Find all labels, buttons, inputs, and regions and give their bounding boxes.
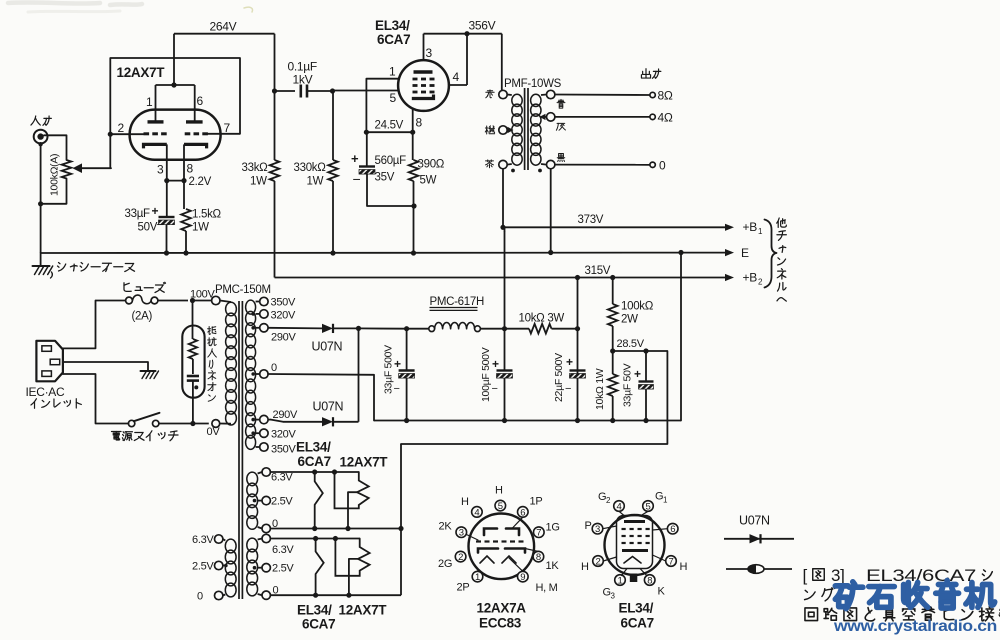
wire 356V rail [424, 33, 502, 35]
svg-text:6CA7: 6CA7 [621, 616, 654, 631]
wire B2 vertical [577, 278, 579, 421]
T2 primary winding [512, 94, 522, 106]
12AX7A pin 1 circle [472, 571, 483, 582]
junction dot E/heater-bias return [678, 250, 683, 255]
wire to cathode bypass cap C3 [366, 132, 368, 166]
junction dot B2 line [575, 275, 580, 280]
svg-text:2.5V: 2.5V [272, 563, 294, 575]
V1 pin2 grid wire from wiper node [110, 133, 143, 135]
svg-text:H: H [461, 496, 469, 508]
scan smudge top-left (decorative) [8, 2, 142, 5]
EL34 pin 5 circle [643, 501, 654, 512]
12AX7 heater element (upper) [335, 472, 369, 508]
V2 pin3 plate lead [423, 34, 425, 60]
svg-text:35V: 35V [375, 172, 395, 184]
svg-text:EL34/: EL34/ [375, 18, 410, 33]
svg-text:8: 8 [647, 575, 652, 586]
svg-text:+: + [394, 357, 401, 371]
svg-text:1kV: 1kV [293, 73, 313, 87]
heater common right-side vertical [400, 529, 402, 596]
resistor R4 390Ω 5W (cathode) [409, 160, 419, 181]
svg-text:−: − [157, 217, 164, 232]
label 出力 [641, 69, 650, 78]
svg-text:10kΩ 3W: 10kΩ 3W [519, 313, 565, 325]
resistor R7 10kΩ 1W (bias divider lower) [612, 351, 614, 374]
capacitor C4 33µF 500V (first filter) [406, 329, 408, 371]
svg-text:PMF-10WS: PMF-10WS [504, 78, 562, 90]
svg-text:P: P [585, 520, 592, 532]
svg-text:1P: 1P [530, 496, 543, 508]
fuse F1 (2A) [96, 300, 126, 302]
svg-text:1.5kΩ: 1.5kΩ [192, 209, 222, 221]
neon capsule bottom wire [192, 381, 194, 424]
svg-text:1: 1 [146, 95, 153, 109]
lower 6.3V heater line [270, 538, 359, 540]
junction dots cathode tie [164, 178, 169, 183]
T1 heater winding (lower 6.3V/2.5V/0) [247, 538, 258, 552]
svg-text:EL34/: EL34/ [297, 603, 332, 618]
T1 primary winding [220, 301, 231, 303]
capacitor C5 100µF 500V (second filter) [504, 329, 506, 371]
svg-text:12AX7A: 12AX7A [477, 601, 527, 616]
choke CH1 winding [429, 326, 435, 332]
junction dot 356V rail/pin4 [464, 31, 469, 36]
svg-text:2G: 2G [438, 558, 452, 570]
T2 brown lead terminal 茶 [499, 160, 507, 168]
svg-text:0: 0 [271, 362, 277, 374]
V1 cathode bar (triode b) [184, 144, 207, 148]
svg-text:3: 3 [426, 46, 433, 60]
watermark 矿石收音机 (blue) [835, 582, 862, 609]
wire wiper up to grid node [109, 134, 111, 168]
12AX7A pin 5 circle [495, 500, 506, 511]
svg-text:0: 0 [659, 159, 666, 173]
12AX7A internal connection lines [512, 517, 523, 528]
V1 cathode bar (triode a) [144, 144, 167, 148]
junction dot wiper/grid line [108, 132, 113, 137]
power transformer T1 primary terminal 100V [212, 296, 220, 304]
wire raw DC node down to D2 [358, 328, 360, 421]
resistor R6 100kΩ 2W (bias divider) [608, 304, 618, 326]
junction dot neon/0V line [190, 421, 195, 426]
junction dot R5/B2 vertical [575, 326, 580, 331]
grid tie loop wire (pins2-7 over top) [110, 58, 240, 134]
svg-text:H: H [680, 561, 688, 573]
svg-text:2P: 2P [457, 582, 470, 594]
svg-text:+: + [152, 204, 159, 218]
upper 6.3V heater line [270, 471, 358, 473]
junction dot 28.5V node [610, 348, 615, 353]
capacitor C2 33µF 50V (cathode bypass) [159, 216, 175, 218]
12AX7A pin 2 circle [455, 551, 466, 562]
chassis ground symbol (AC inlet) [141, 370, 156, 372]
svg-text:7: 7 [224, 121, 231, 135]
svg-text:12AX7T: 12AX7T [340, 455, 389, 470]
wire raw DC line to first filter cap [359, 327, 407, 329]
svg-text:2: 2 [458, 552, 463, 563]
svg-text:EL34/: EL34/ [296, 440, 331, 455]
wire D1 cathode to raw DC node [333, 327, 359, 329]
PSU common rail (line A) [374, 420, 681, 422]
wire 290V lower tap to rectifier D2 [268, 419, 271, 421]
svg-text:560µF: 560µF [375, 155, 407, 167]
T2 orange lead terminal 橙 (tap arrow) [499, 126, 507, 134]
junction dot C4 bottom [404, 418, 409, 423]
label シャシーアース [58, 263, 66, 272]
V2 plate bar [414, 70, 433, 74]
junction dot raw DC node [356, 326, 361, 331]
junction dots lower heater [313, 536, 318, 541]
svg-text:1: 1 [618, 575, 623, 586]
svg-text:356V: 356V [469, 19, 496, 33]
capacitor C3 560µF 35V (cathode bypass) [359, 165, 375, 167]
12AX7A pin 6 circle [518, 507, 529, 518]
svg-text:E: E [741, 246, 749, 260]
svg-text:100kΩ: 100kΩ [621, 301, 654, 313]
terminal 8Ω [650, 92, 655, 97]
junction dot E/OPT black [548, 250, 553, 255]
label 電源スイッチ [112, 432, 122, 441]
svg-text:330kΩ: 330kΩ [294, 162, 327, 174]
capacitor C6 22µF 500V (B2 filter) [570, 369, 586, 371]
svg-text:EL34/: EL34/ [619, 601, 654, 616]
junction dot 28.5V/C7 [643, 348, 648, 353]
resistor R1 33kΩ 1W body [270, 160, 280, 181]
wire IEC live to fuse line [63, 301, 96, 349]
svg-text:0.1µF: 0.1µF [288, 60, 317, 74]
junction dot 373V node [502, 326, 507, 331]
12AX7A pin 9 circle [518, 571, 529, 582]
svg-text:33kΩ: 33kΩ [242, 162, 269, 174]
junction dot C3/R4 [411, 203, 416, 208]
svg-text:www.crystalradio.cn: www.crystalradio.cn [833, 618, 997, 635]
legend neon lamp symbol [726, 568, 792, 570]
svg-text:8: 8 [536, 552, 541, 563]
svg-text:5: 5 [498, 501, 503, 512]
svg-text:H, M: H, M [536, 582, 558, 594]
svg-text:U07N: U07N [312, 340, 343, 354]
EL34 guide key [630, 574, 638, 583]
T1 HV taps terminals and labels [260, 297, 268, 305]
potentiometer VR1 100kΩ(A) body [62, 160, 72, 179]
chassis ground symbol (input) [40, 253, 42, 266]
label 他チャンネルヘ (vertical) [777, 218, 787, 227]
junction dot C2/ground bus [164, 250, 169, 255]
junction dot plate tie [171, 82, 176, 87]
wire cap to ground bus [166, 225, 168, 253]
tube pinout diagram EL34/6CA7 [605, 515, 665, 575]
V1 pin6 lead [194, 85, 196, 122]
T2 gray lead terminal 灰 (tap arrow) [547, 113, 555, 121]
svg-text:2: 2 [596, 556, 601, 567]
T1 primary terminal 0V [212, 420, 220, 428]
neon pilot lamp with resistor (抵抗入りネオン) capsule [182, 326, 204, 398]
tube V1 12AX7T envelope [130, 110, 221, 160]
EL34 pin 3 circle [592, 523, 603, 534]
svg-text:8Ω: 8Ω [658, 89, 673, 103]
svg-text:315V: 315V [585, 265, 611, 277]
EL34 internal structure box [617, 516, 653, 569]
brace to other channel [765, 220, 777, 288]
T1 HV secondary winding [246, 300, 256, 314]
svg-text:4: 4 [474, 507, 479, 518]
label ヒューズ (2A) [124, 283, 131, 292]
svg-text:6.3V: 6.3V [192, 534, 214, 546]
wire brown lead down to +B1 node [502, 169, 504, 228]
svg-text:50V: 50V [138, 222, 158, 234]
junction dot R2/ground bus [183, 250, 188, 255]
svg-text:2W: 2W [621, 314, 638, 326]
lower heater terminals [262, 534, 270, 542]
wire cathode to R4 [412, 132, 414, 160]
power switch S1 [128, 420, 134, 426]
wire R3 to ground bus [332, 181, 334, 253]
svg-text:9: 9 [520, 572, 525, 583]
wire 8Ω output [555, 94, 650, 97]
junction dots upper heater [312, 469, 317, 474]
wire R6 to 28.5V node [612, 326, 614, 351]
wire PSU common right end up to E bus [680, 253, 682, 421]
svg-text:264V: 264V [210, 20, 237, 34]
T2 phase dots [511, 169, 515, 173]
svg-text:2: 2 [118, 121, 125, 135]
T1 core [238, 301, 240, 599]
svg-text:[: [ [803, 566, 808, 585]
svg-text:4: 4 [453, 70, 460, 84]
svg-text:EL34/6CA7: EL34/6CA7 [866, 566, 976, 585]
wire cathode to R2 [183, 181, 185, 209]
svg-text:3: 3 [157, 163, 164, 177]
junction dot 100kΩ top on B2 [610, 275, 615, 280]
junction dot fuse line / neon [190, 298, 195, 303]
svg-text:2K: 2K [439, 521, 453, 533]
cathode 24.5V wire [366, 131, 412, 133]
svg-text:2.5V: 2.5V [192, 561, 214, 573]
T1 heater winding (upper 6.3V/2.5V/0) [247, 472, 258, 486]
svg-text:+: + [492, 357, 499, 371]
svg-text:5: 5 [390, 91, 397, 105]
V2 pin4 screen wire [449, 84, 467, 86]
EL34 heater element (upper) [315, 472, 323, 529]
svg-text:−: − [565, 383, 571, 395]
V1 pin7 grid wire to right [207, 133, 240, 135]
input jack J1 (RCA 入力) [34, 130, 48, 144]
resistor R3 330kΩ 1W body [328, 160, 338, 181]
wire 4Ω output [555, 116, 650, 118]
12AX7A pin 7 circle [534, 527, 545, 538]
wire C4 node to choke [407, 328, 429, 330]
junction dot B2 vertical bottom [575, 418, 580, 423]
legend diode symbol [724, 538, 794, 540]
wire black lead down to E bus [550, 169, 552, 253]
svg-text:+: + [351, 151, 359, 166]
V1 pin3 cathode lead [166, 144, 168, 180]
svg-text:U07N: U07N [313, 400, 344, 414]
svg-text:5W: 5W [420, 175, 437, 187]
svg-text:24.5V: 24.5V [375, 120, 404, 132]
svg-text:6.3V: 6.3V [271, 472, 293, 484]
svg-text:+: + [634, 367, 641, 381]
svg-text:6CA7: 6CA7 [298, 454, 331, 469]
svg-text:−: − [492, 383, 498, 395]
svg-text:373V: 373V [578, 214, 604, 226]
wire IEC earth to chassis [63, 362, 148, 371]
wire jack sleeve down to ground bus [40, 144, 42, 253]
neon series resistor body [189, 339, 197, 359]
svg-text:IEC·AC: IEC·AC [26, 385, 66, 399]
12AX7A internal symbol [484, 529, 497, 536]
svg-text:1K: 1K [546, 560, 560, 572]
svg-text:33µF: 33µF [125, 208, 151, 220]
junction dot R3/ground bus [330, 250, 335, 255]
EL34 pin 4 circle [614, 501, 625, 512]
upper heater 0 line [270, 528, 401, 530]
svg-text:6CA7: 6CA7 [302, 617, 335, 632]
svg-text:ECC83: ECC83 [479, 616, 522, 631]
EL34 pin 1 circle [615, 575, 626, 586]
EL34 pin 2 circle [593, 556, 604, 567]
+B2 line 315V [275, 277, 728, 279]
EL34 pin 6 circle [667, 523, 678, 534]
V1 plate bar (triode a) [148, 120, 164, 123]
label 抵抗入りネオン (vertical) [208, 327, 216, 335]
svg-text:(2A): (2A) [132, 311, 153, 323]
svg-text:4Ω: 4Ω [658, 111, 673, 125]
wire heater bias: 28.5V node down to line B [401, 351, 667, 444]
svg-text:12AX7T: 12AX7T [339, 603, 388, 618]
svg-text:PMC-617H: PMC-617H [430, 296, 484, 308]
wire R2 to ground bus [185, 231, 187, 253]
tube V2 EL34/6CA7 envelope [398, 60, 449, 111]
T2 secondary winding [531, 94, 541, 106]
svg-text:+: + [566, 355, 573, 369]
wire 0Ω output [555, 164, 650, 166]
wire D2 cathode to raw DC node [333, 421, 359, 423]
V2 grid dash rows [413, 78, 418, 81]
svg-text:1W: 1W [192, 222, 209, 234]
svg-text:12AX7T: 12AX7T [117, 65, 166, 80]
svg-text:1: 1 [389, 65, 396, 79]
cathode tie wire [167, 180, 186, 182]
IEC inlet pin slots [42, 346, 52, 352]
V1 pin8 cathode lead [183, 144, 185, 180]
wire R4 to ground bus [413, 181, 415, 253]
diode D2 U07N (lower) [322, 417, 333, 426]
svg-text:100µF 500V: 100µF 500V [480, 347, 492, 402]
wire B2 to R6 [612, 278, 614, 305]
svg-text:7: 7 [669, 556, 674, 567]
svg-text:6: 6 [670, 524, 675, 535]
svg-text:3: 3 [459, 528, 464, 539]
svg-text:10kΩ 1W: 10kΩ 1W [594, 368, 606, 410]
terminal 4Ω [650, 114, 655, 119]
EL34 internal connection lines [641, 511, 648, 515]
V1 grid dashes (triode a) [144, 132, 150, 135]
svg-text:1W: 1W [307, 176, 324, 188]
svg-text:290V: 290V [273, 409, 298, 421]
EL34 pin 8 circle [644, 575, 655, 586]
svg-text:2.5V: 2.5V [271, 496, 293, 508]
svg-text:1G: 1G [546, 522, 560, 534]
svg-text:H: H [581, 561, 589, 573]
IEC AC inlet connector body [36, 341, 63, 382]
resistor R2 1.5kΩ 1W (cathode) [181, 209, 191, 231]
svg-text:+B: +B [743, 271, 758, 285]
junction dot R4/ground bus [411, 250, 416, 255]
T2 blue lead terminal 青 [547, 90, 555, 98]
resistor R3 330kΩ 1W (grid leak) upper wire [332, 91, 334, 160]
svg-text:K: K [658, 586, 666, 598]
wire 264V rail down to plate-load node [274, 34, 276, 91]
T2 black lead terminal 黒 [547, 160, 555, 168]
svg-text:28.5V: 28.5V [617, 338, 645, 350]
label 入力 [31, 116, 40, 125]
caption line 2: ング… [805, 590, 816, 599]
svg-text:8: 8 [416, 116, 423, 130]
resistor R5 10kΩ 3W (B2 dropper) [505, 328, 530, 330]
12AX7 heater centre tap (lower) [349, 559, 358, 595]
pot wiper arrow [79, 167, 111, 169]
wire 264V rail [174, 33, 275, 35]
EL34 internal symbol [624, 520, 645, 523]
12AX7A pin 4 circle [472, 507, 483, 518]
V1 pin1 lead [155, 85, 157, 122]
svg-text:22µF 500V: 22µF 500V [553, 353, 565, 402]
capacitor C1 0.1µF 1kV (coupling) [299, 85, 302, 98]
12AX7 heater element (lower) [335, 539, 369, 576]
wire R1 to +B2 rail [274, 181, 276, 278]
neon lamp electrodes [192, 359, 194, 374]
junction dots 24.5V line [364, 130, 369, 135]
wire C3 bottom to junction [367, 174, 414, 206]
E (earth) bus line [41, 252, 727, 254]
svg-text:PMC-150M: PMC-150M [215, 284, 271, 296]
junction dot grid node EL34 [330, 88, 335, 93]
junction dot plate load node [272, 88, 277, 93]
12AX7 heater centre tap (upper) [348, 492, 357, 528]
svg-text:U07N: U07N [739, 514, 770, 528]
svg-text:320V: 320V [271, 429, 296, 441]
+B1 line 373V [503, 226, 727, 228]
wire 356V rail down to OPT red lead [501, 34, 503, 91]
12AX7A pin 3 circle [456, 527, 467, 538]
junction dot C4 top [404, 326, 409, 331]
V1 plate bar (triode b) [186, 120, 203, 123]
wire 373V node up to +B1 tee [504, 231, 506, 329]
T2 core [524, 88, 526, 170]
svg-text:0: 0 [197, 591, 203, 603]
V2 pin1 wire (g3 to cathode line) [366, 79, 398, 133]
upper heater terminals [262, 468, 270, 476]
lower heater 0 line [270, 594, 401, 596]
wire coupling node to C1 [275, 90, 296, 92]
28.5V line [613, 350, 668, 352]
12AX7A pin 8 circle [533, 551, 544, 562]
caption line 3: 回路図と真空管ピン接続 [805, 608, 818, 621]
svg-text:100kΩ(A): 100kΩ(A) [49, 154, 61, 196]
wire pot bottom to jack ground wire [41, 179, 67, 204]
EL34 heater element (lower) [316, 539, 324, 596]
svg-text:6.3V: 6.3V [272, 544, 294, 556]
wire 290V tap to rectifier D1 [268, 327, 322, 330]
svg-text:390Ω: 390Ω [418, 159, 445, 171]
V1 grid dashes (triode b) [185, 132, 191, 135]
svg-text:33µF 50V: 33µF 50V [622, 363, 634, 407]
svg-text:3: 3 [595, 524, 600, 535]
svg-text:6CA7: 6CA7 [377, 32, 410, 47]
aux heater terminals and labels [215, 535, 223, 543]
junction dot pot-bottom/ground wire [38, 201, 43, 206]
